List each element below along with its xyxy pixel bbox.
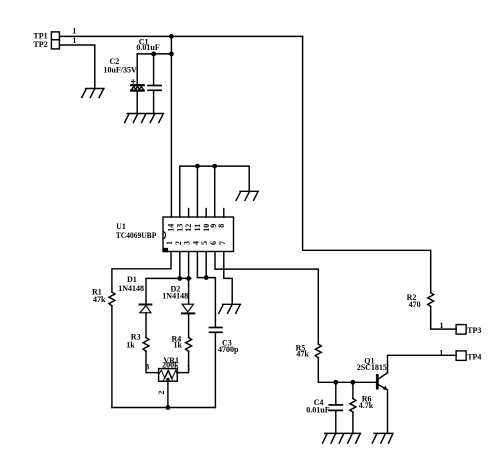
svg-text:1k: 1k (174, 341, 183, 350)
svg-text:5: 5 (200, 241, 209, 245)
wire: D1 to R3 (145, 313, 147, 338)
wire: pin 12 stub (188, 209, 190, 217)
node junction pin 2 (177, 276, 182, 281)
wire: pin 11 up (196, 166, 198, 217)
resistor R4 1k (172, 335, 192, 352)
connector TP3 (456, 325, 481, 336)
wire: pin 3 down to D2 (188, 252, 190, 305)
svg-text:1: 1 (165, 241, 174, 245)
transistor Q1 2SC1815 (357, 356, 388, 389)
svg-text:3: 3 (183, 241, 192, 245)
svg-text:12: 12 (184, 224, 193, 232)
node junction at C4 (333, 380, 338, 385)
ground on pin 13 net (236, 191, 258, 200)
diode D1 1N4148 (118, 275, 151, 313)
ground under C1 C2 (125, 114, 164, 123)
node junction at R6 (351, 380, 356, 385)
resistor R6 4.7k (350, 382, 374, 433)
svg-text:6: 6 (209, 241, 218, 245)
svg-text:1N4148: 1N4148 (162, 292, 188, 301)
svg-text:4.7k: 4.7k (359, 401, 374, 410)
svg-text:13: 13 (175, 224, 184, 232)
node junction at VR1 wiper (166, 405, 171, 410)
ground on pin 7 (219, 304, 241, 313)
capacitor C1 (0.01uF) (136, 37, 161, 113)
wire: pin 9 up (214, 166, 216, 217)
connector TP1 (33, 31, 59, 40)
svg-text:3: 3 (145, 362, 149, 371)
svg-text:D1: D1 (127, 275, 137, 284)
svg-text:1: 1 (72, 36, 76, 45)
wire: pin 2 down (179, 252, 181, 279)
wire: pin 8 stub (223, 209, 225, 217)
capacitor C4 0.01uF (306, 382, 342, 433)
wire: R1 to bottom rail (111, 306, 113, 408)
svg-text:TP2: TP2 (33, 40, 47, 49)
capacitor C2 (electrolytic 10uF/35V) (103, 54, 143, 114)
wire: pin 1 to R1 (112, 252, 171, 293)
svg-text:TC4069UBP: TC4069UBP (116, 231, 157, 240)
capacitor C3 4700p (210, 328, 240, 354)
svg-text:1N4148: 1N4148 (118, 284, 144, 293)
svg-text:2: 2 (174, 241, 183, 245)
connector TP4 (456, 351, 481, 362)
svg-text:1: 1 (187, 363, 191, 372)
wire: pin 7 to ground (224, 252, 232, 305)
IC U1 TC4069UBP (116, 217, 234, 252)
potentiometer VR1 200k (159, 356, 180, 381)
svg-text:1: 1 (439, 349, 443, 358)
wire: pin 10 stub (205, 209, 207, 217)
svg-text:14: 14 (167, 224, 176, 232)
wire: cap branch horizontal (137, 53, 171, 55)
wire: collector to TP4 (388, 355, 457, 373)
node junction at C1 (151, 52, 156, 57)
resistor R1 47k (92, 288, 115, 306)
svg-text:8: 8 (217, 224, 226, 228)
wire: left bus to D1 (146, 278, 191, 303)
wire: top rail right drop (303, 36, 431, 292)
node junction at cap branch (169, 52, 174, 57)
svg-text:0.01uF: 0.01uF (306, 405, 329, 414)
svg-text:1k: 1k (126, 341, 135, 350)
svg-text:4: 4 (191, 241, 200, 245)
ground under emitter (372, 433, 392, 443)
wire: emitter to ground (387, 390, 389, 434)
resistor R2 470 (407, 293, 434, 309)
wire: VR1 wiper to bottom rail (167, 381, 169, 407)
wire: bottom rail (112, 407, 215, 409)
svg-text:TP3: TP3 (467, 326, 481, 335)
wire: D2 to R4 (188, 313, 190, 337)
svg-text:7: 7 (218, 241, 227, 245)
svg-text:470: 470 (409, 300, 421, 309)
node junction pin 3 (186, 276, 191, 281)
ground under TP2 (82, 89, 104, 98)
wire: R5 to base bus (318, 358, 376, 383)
svg-text:200k: 200k (162, 360, 179, 369)
svg-text:1: 1 (72, 27, 76, 36)
wire: pin 5 down (205, 252, 207, 278)
svg-text:11: 11 (193, 224, 202, 232)
wire: pin 6 to R5 (215, 252, 318, 345)
svg-text:10uF/35V: 10uF/35V (103, 66, 137, 75)
wire: pin 13 net horizontal (180, 166, 249, 217)
wire: R2 to TP3 (431, 307, 456, 330)
diode D2 1N4148 (162, 284, 194, 313)
resistor R3 1k (126, 333, 149, 352)
wire: main vertical to pin 14 (170, 36, 172, 217)
svg-text:47k: 47k (93, 295, 106, 304)
wire: pin 4 bus to C3 (197, 252, 215, 328)
svg-text:U1: U1 (116, 222, 126, 231)
svg-text:TP4: TP4 (467, 353, 481, 362)
node junction on top rail (169, 34, 174, 39)
svg-text:47k: 47k (296, 350, 309, 359)
ground under C4 R6 (323, 433, 361, 443)
wire: TP2 to ground (59, 45, 94, 89)
svg-text:1: 1 (440, 321, 444, 330)
svg-text:4700p: 4700p (218, 345, 239, 354)
node junction pin 9 (212, 164, 217, 169)
wire: TP1 to top rail (59, 35, 302, 37)
svg-text:2: 2 (157, 391, 166, 395)
resistor R5 47k (296, 344, 322, 359)
svg-text:0.01uF: 0.01uF (136, 43, 159, 52)
svg-text:2SC1815: 2SC1815 (357, 363, 387, 372)
wire: R3 to VR1 pin 3 (146, 351, 159, 372)
wire: C3 to bottom rail (214, 332, 216, 407)
connector TP2 (33, 40, 59, 49)
node junction pin 5 (204, 275, 209, 280)
node junction pin 11 (195, 164, 200, 169)
wire: R4 to VR1 pin 1 (177, 351, 188, 372)
